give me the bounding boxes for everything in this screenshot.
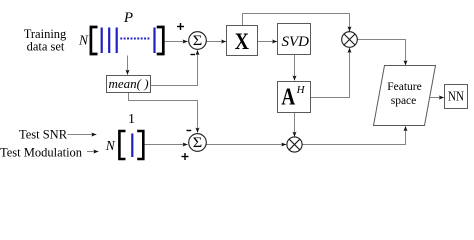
svg-text:1: 1 <box>128 112 135 127</box>
svg-text:Test Modulation: Test Modulation <box>0 146 83 160</box>
svg-text:N: N <box>78 33 89 48</box>
svg-text:X: X <box>235 29 249 55</box>
svg-text:A: A <box>281 85 295 111</box>
svg-text:NN: NN <box>448 89 464 104</box>
svg-text:Test SNR: Test SNR <box>19 128 68 142</box>
svg-text:space: space <box>391 95 417 107</box>
svg-text:SVD: SVD <box>281 34 309 50</box>
svg-text:Feature: Feature <box>387 81 421 93</box>
svg-text:data set: data set <box>27 40 65 54</box>
svg-text:Σ: Σ <box>193 135 203 151</box>
svg-text:P: P <box>123 10 133 26</box>
svg-text:mean( ): mean( ) <box>108 76 148 91</box>
svg-text:H: H <box>296 84 306 96</box>
svg-text:N: N <box>105 138 116 153</box>
svg-text:Σ: Σ <box>193 33 203 49</box>
